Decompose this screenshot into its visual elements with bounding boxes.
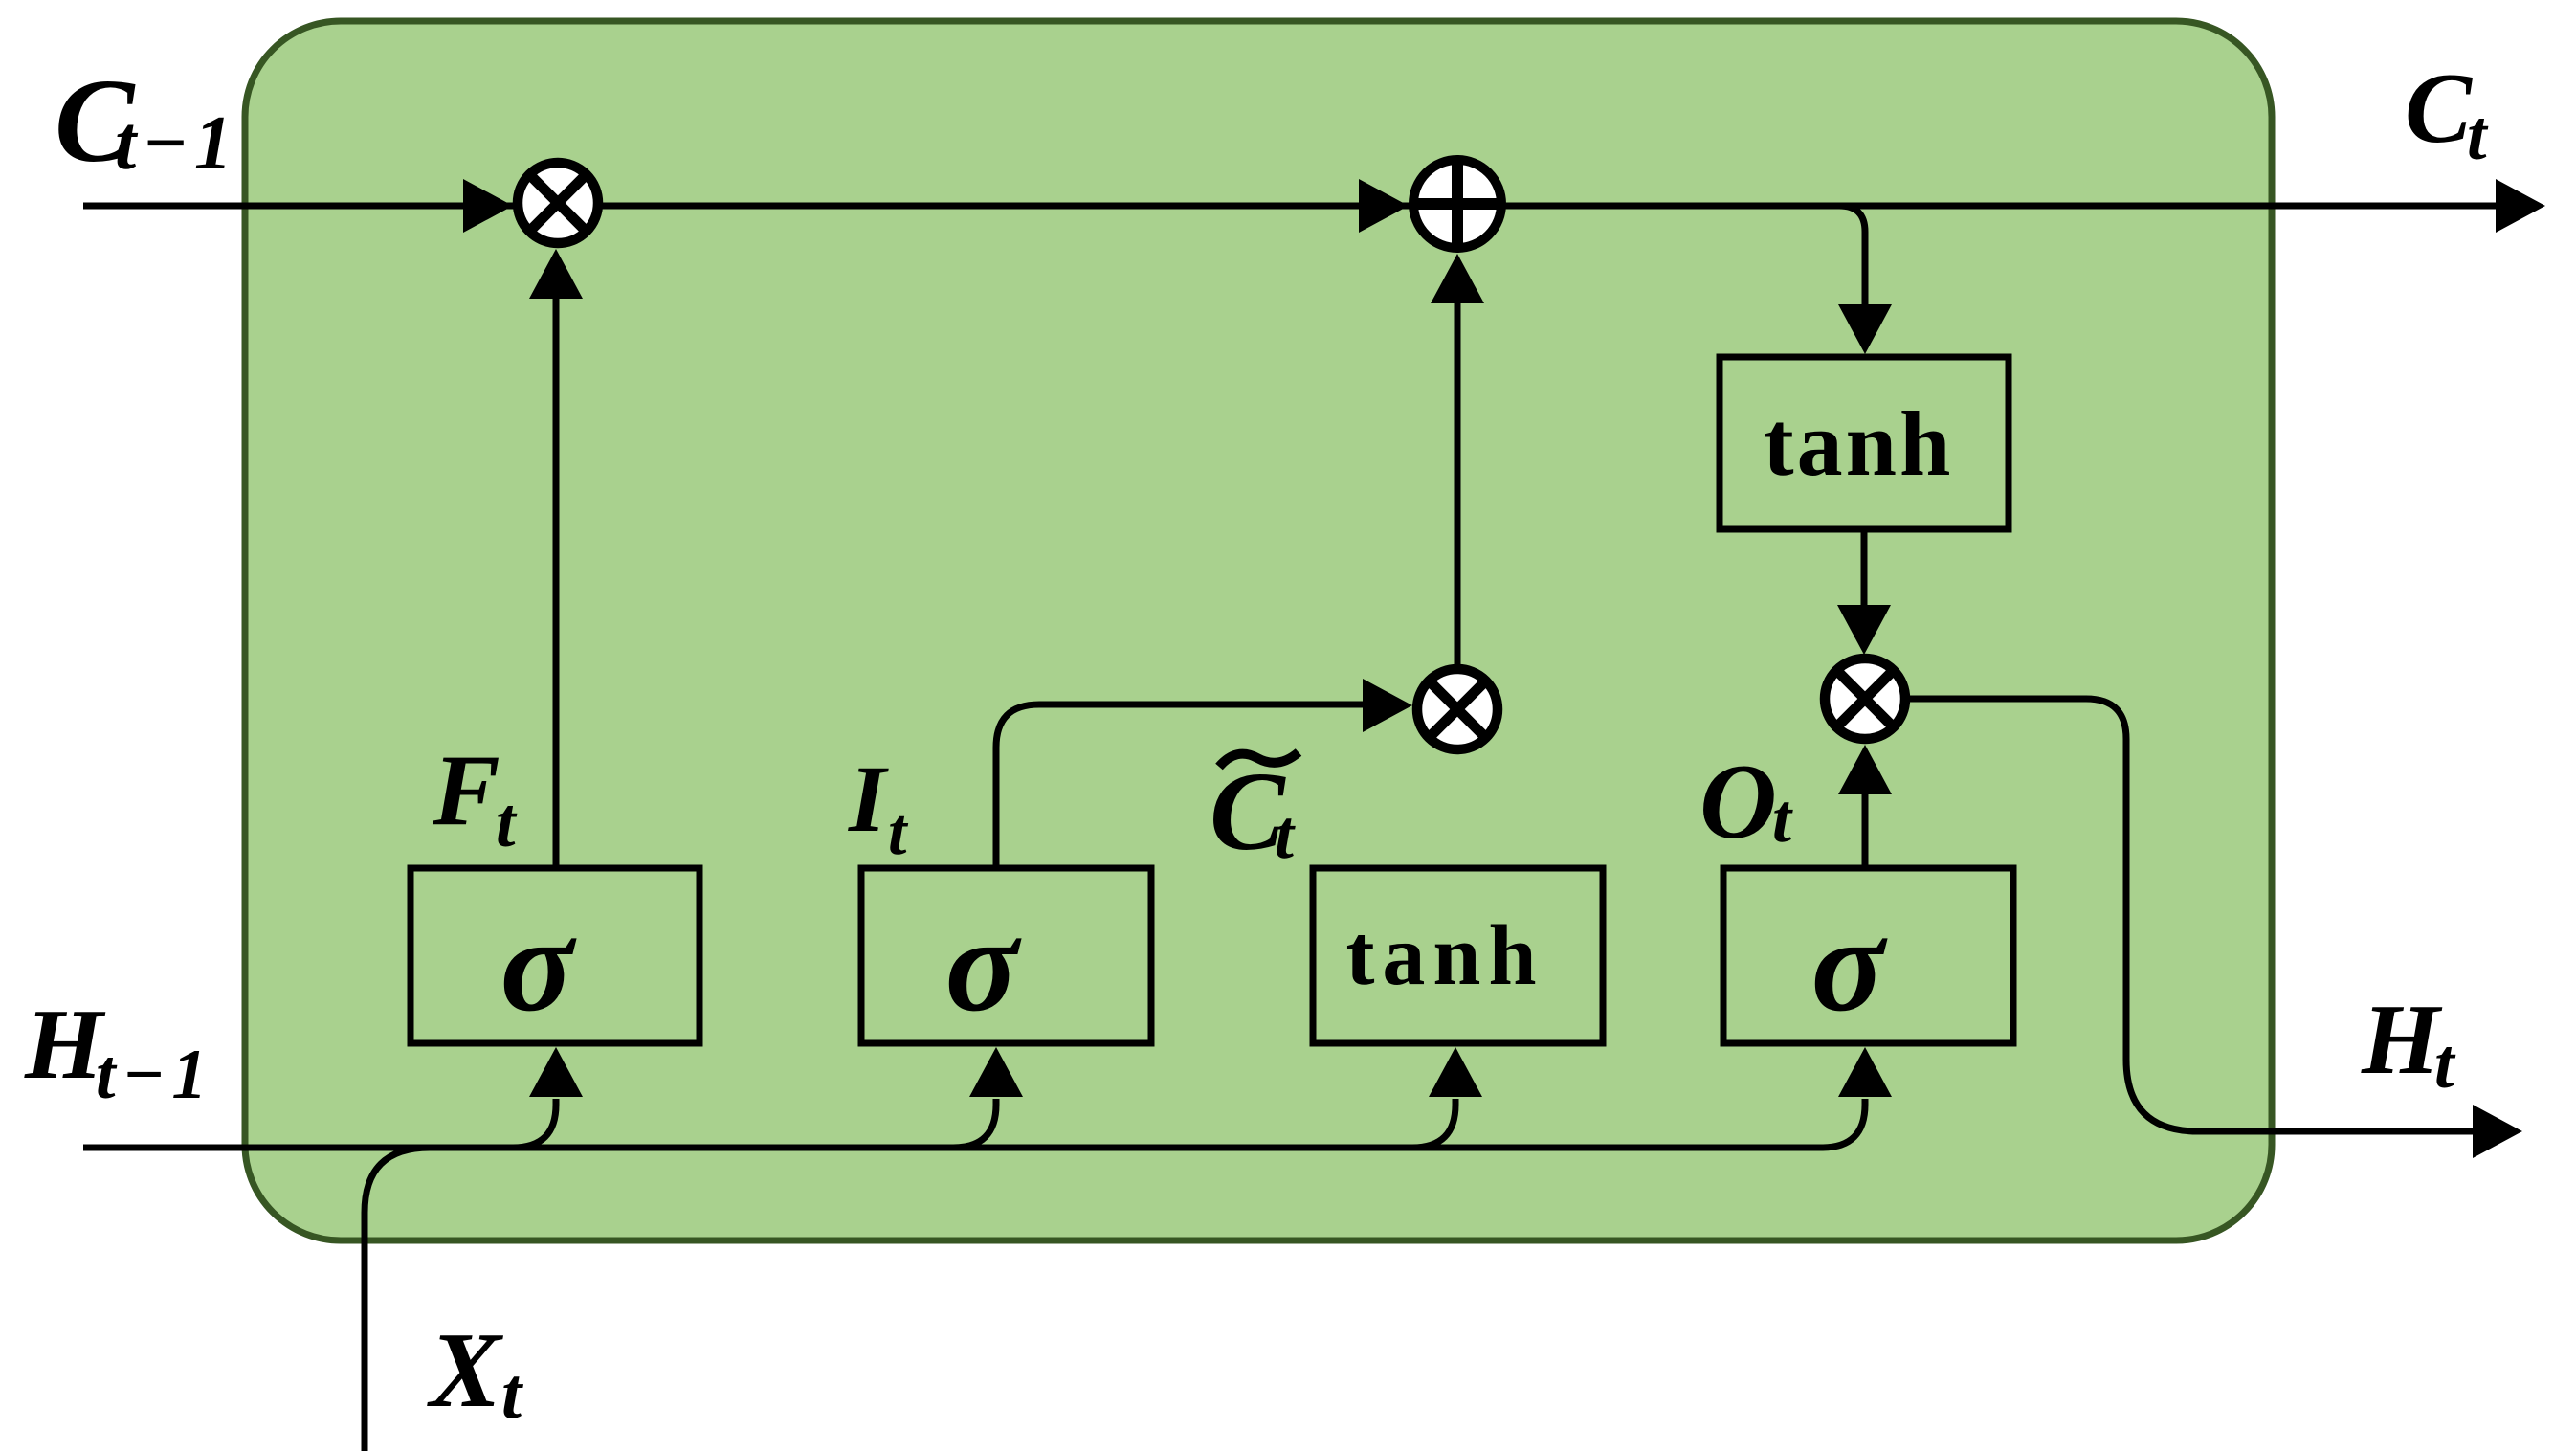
wire: candidate multiply up to add node [1455, 302, 1461, 664]
svg-text:t−1: t−1 [96, 1036, 213, 1114]
wire: branch from C line down to tanh [1839, 206, 1865, 308]
wire: X_t input joining H line [365, 1148, 430, 1451]
wire: O_t up from output gate to output multiply [1862, 793, 1869, 868]
wire: C(t-1) cell-state line [83, 203, 2499, 210]
svg-text:F: F [432, 734, 500, 846]
multiply node ⊗ candidate [1417, 669, 1498, 749]
wire: branch up to forget gate [513, 1099, 556, 1148]
svg-text:t: t [888, 795, 909, 869]
wire arrowhead into forget multiply [463, 179, 513, 233]
svg-text:t: t [501, 1353, 524, 1434]
svg-text:t−1: t−1 [115, 101, 238, 186]
add node ⊕ [1413, 160, 1501, 248]
label O_t [1699, 743, 1793, 861]
wire: arrowhead up to output gate [1838, 1047, 1892, 1097]
svg-text:t: t [496, 784, 518, 862]
sigma box I (input gate) [861, 868, 1151, 1043]
svg-text:tanh: tanh [1764, 392, 1954, 495]
multiply node ⊗ forget [518, 163, 598, 243]
svg-text:t: t [1772, 780, 1793, 857]
svg-text:H: H [24, 988, 106, 1100]
wire: tanh down to output multiply [1861, 529, 1868, 610]
label C_t [2405, 52, 2489, 175]
label H_t [2361, 983, 2456, 1104]
svg-text:C: C [2405, 52, 2474, 164]
wire: I_t path from input gate to candidate multiply [996, 704, 1363, 868]
label F_t [432, 734, 518, 862]
tanh box (candidate gate) [1313, 868, 1603, 1043]
LSTM cell body [245, 21, 2272, 1240]
wire: branch up to input gate [953, 1099, 996, 1148]
sigma box O (output gate) [1723, 868, 2013, 1043]
svg-text:X: X [427, 1311, 503, 1430]
svg-text:σ: σ [1811, 888, 1888, 1039]
svg-text:I: I [848, 746, 889, 852]
label I_t [848, 746, 909, 869]
svg-text:tanh: tanh [1345, 908, 1543, 1003]
label C_{t-1} [55, 56, 238, 188]
node C_t output arrowhead [2496, 179, 2545, 233]
wire: H(t-1) line along bottom [83, 1099, 1865, 1148]
label X_t [427, 1311, 524, 1434]
sigma box F (forget gate) [411, 868, 700, 1043]
wire arrowhead into add node [1359, 179, 1409, 233]
wire: forget gate output F_t up to multiply [553, 297, 560, 868]
wire: branch up to candidate tanh gate [1412, 1099, 1455, 1148]
label C~_t (candidate) [1210, 748, 1299, 874]
svg-text:O: O [1699, 743, 1777, 861]
svg-text:σ: σ [945, 888, 1022, 1039]
wire: H_t output from multiply to right edge [1910, 699, 2478, 1131]
svg-text:t: t [2434, 1025, 2456, 1104]
svg-text:σ: σ [500, 888, 577, 1039]
svg-text:t: t [1275, 796, 1296, 873]
label H_{t-1} [24, 988, 213, 1114]
svg-text:H: H [2361, 983, 2443, 1095]
multiply node ⊗ output [1825, 659, 1905, 739]
svg-text:t: t [2467, 97, 2489, 175]
tanh box (cell output) [1720, 357, 2009, 529]
